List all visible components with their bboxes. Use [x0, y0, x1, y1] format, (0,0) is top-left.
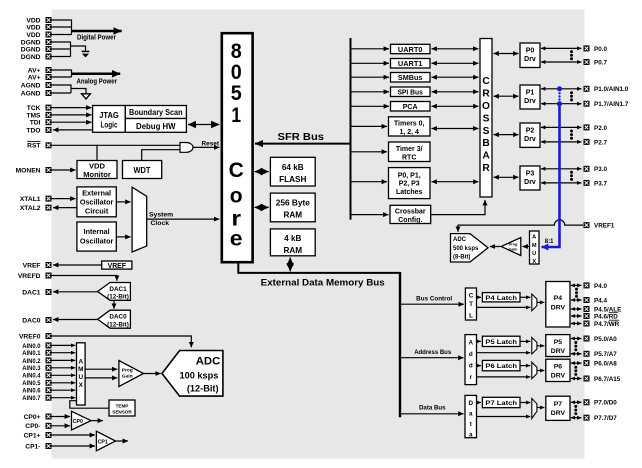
wire bus to timer3: [351, 151, 388, 153]
mux P6: [532, 362, 537, 379]
ADC0 12-bit block: [162, 351, 223, 397]
pin VDD 2: [26, 24, 51, 31]
pin DGND 3: [21, 54, 52, 61]
pin TDI: [30, 119, 52, 126]
P1 drv box: [520, 85, 540, 109]
wire XTAL1: [52, 198, 76, 200]
wire gate to core: [193, 146, 219, 148]
svg-text:Boundary Scan: Boundary Scan: [129, 108, 183, 117]
wire crossbar to P1 drv: [494, 95, 519, 97]
wire P3.0: [541, 168, 582, 170]
svg-text:o: o: [230, 183, 243, 207]
svg-text:64 kB: 64 kB: [282, 163, 304, 172]
svg-text:T: T: [469, 301, 473, 308]
svg-text:C: C: [469, 292, 474, 299]
mux clock select: [132, 187, 147, 252]
pin TDO: [26, 127, 51, 134]
wire addr to P6 latch: [477, 365, 481, 367]
P2 drv box: [520, 123, 540, 147]
wire P4.5: [571, 308, 582, 310]
internal oscillator box: [77, 222, 116, 251]
wire AV+ bus: [52, 70, 72, 77]
svg-text:Drv: Drv: [524, 98, 536, 105]
dots P4: [575, 288, 578, 298]
pin DAC1: [22, 289, 51, 296]
wire addr P5 bypass: [477, 352, 531, 354]
Addr box: [465, 335, 477, 385]
boundary scan box: [125, 106, 186, 119]
svg-text:A: A: [532, 235, 536, 241]
pin DAC0: [22, 317, 51, 324]
pin CP1-: [25, 443, 51, 450]
svg-text:TCK: TCK: [27, 105, 41, 112]
svg-text:DGND: DGND: [21, 54, 41, 61]
svg-text:P3: P3: [526, 171, 535, 178]
svg-text:P3.7: P3.7: [594, 180, 607, 187]
wire bus to UART1: [351, 62, 390, 64]
svg-text:P0: P0: [526, 48, 535, 55]
temp sensor box: [109, 400, 135, 416]
ground digital: [82, 51, 90, 57]
dots P7: [574, 405, 577, 415]
svg-text:P4: P4: [554, 295, 563, 302]
pin VREF1: [584, 222, 615, 229]
svg-text:CP0-: CP0-: [25, 423, 40, 430]
svg-text:FLASH: FLASH: [279, 175, 306, 184]
svg-text:4 kB: 4 kB: [284, 234, 301, 243]
svg-text:DAC1: DAC1: [109, 286, 127, 293]
pin P7.0/D0: [584, 399, 618, 406]
svg-text:VDD: VDD: [26, 17, 40, 24]
svg-text:Timers 0,: Timers 0,: [394, 121, 425, 128]
pin AV+ 1: [28, 67, 52, 74]
svg-text:8:1: 8:1: [545, 239, 554, 245]
mux P5: [532, 338, 537, 355]
wire DAC0: [53, 319, 98, 321]
CTL box: [465, 288, 476, 320]
pin TCK: [27, 105, 52, 112]
svg-text:P0, P1,: P0, P1,: [398, 172, 421, 179]
comparator CP0: [72, 411, 92, 430]
svg-text:VREFD: VREFD: [18, 273, 41, 280]
svg-text:A: A: [482, 151, 490, 162]
wire MONEN: [52, 169, 76, 171]
wire UART0 to crossbar: [432, 48, 479, 50]
pin RST: [27, 141, 51, 149]
pin P1.0/AIN1.0: [584, 86, 629, 93]
wire data to P7 latch: [477, 402, 481, 404]
wire external memory bus vertical: [399, 272, 401, 417]
wire DGND bus: [52, 42, 71, 57]
ADC1 8-bit block: [451, 234, 489, 262]
wire core to flash: [255, 171, 269, 173]
pin AIN0.4: [22, 372, 51, 379]
svg-text:256 Byte: 256 Byte: [276, 199, 310, 208]
svg-text:Logic: Logic: [101, 120, 118, 130]
wire TMS: [52, 114, 92, 116]
wire P1.0: [541, 88, 582, 90]
svg-text:AV+: AV+: [28, 67, 41, 74]
svg-text:JTAG: JTAG: [99, 110, 119, 120]
pin DGND 2: [21, 46, 52, 53]
wire CTL to P4 latch: [477, 296, 481, 298]
svg-text:Bus Control: Bus Control: [416, 296, 452, 303]
svg-text:XTAL1: XTAL1: [20, 196, 41, 203]
svg-text:VDD: VDD: [26, 32, 40, 39]
wire to digital ground: [71, 46, 86, 52]
WDT box: [123, 161, 162, 179]
svg-text:P3.0: P3.0: [594, 166, 607, 173]
svg-text:O: O: [482, 101, 490, 112]
wire core to ram256: [255, 206, 269, 208]
wire address bus: [400, 357, 464, 359]
svg-text:(12-Bit): (12-Bit): [187, 384, 219, 394]
UART1 box: [391, 59, 431, 69]
wire WDT to gate: [142, 150, 180, 161]
ground analog: [82, 94, 91, 99]
wire system clock: [147, 218, 220, 220]
pin P2.0: [584, 124, 608, 131]
wire P2.7: [541, 141, 582, 143]
wire prog gain 2 to ADC1: [490, 246, 501, 248]
P6 latch box: [482, 360, 520, 370]
svg-text:Gain: Gain: [122, 374, 133, 380]
svg-text:P2.7: P2.7: [594, 139, 607, 146]
pin TMS: [26, 112, 51, 119]
P6 DRV box: [546, 359, 570, 381]
svg-text:AIN0.7: AIN0.7: [22, 395, 41, 402]
svg-text:DAC0: DAC0: [22, 317, 40, 324]
pin AV+ 2: [28, 74, 52, 81]
svg-text:P4.4: P4.4: [594, 297, 607, 304]
svg-text:Debug HW: Debug HW: [136, 122, 176, 131]
wire SFR bus horizontal: [255, 143, 351, 145]
wire VREF: [53, 264, 102, 266]
svg-text:100 ksps: 100 ksps: [179, 370, 218, 380]
svg-text:e: e: [230, 227, 243, 251]
svg-text:RAM: RAM: [283, 246, 302, 255]
wire P4.6: [571, 315, 582, 317]
svg-text:DRV: DRV: [551, 305, 566, 312]
svg-text:Drv: Drv: [524, 56, 536, 63]
pin XTAL1: [20, 196, 52, 203]
wire bus to latches: [351, 181, 388, 183]
gate reset: [180, 143, 193, 153]
wire addr to P5 latch: [477, 340, 481, 342]
wire CP0-: [52, 425, 71, 427]
wire bus to PCA: [351, 105, 390, 107]
wire P7.0: [571, 401, 582, 403]
VREF box: [102, 261, 132, 270]
P5 latch box: [482, 336, 520, 346]
P5 DRV box: [546, 335, 570, 357]
svg-text:TDO: TDO: [26, 127, 40, 134]
wire config to crossbar: [431, 200, 485, 215]
svg-text:DAC0: DAC0: [109, 314, 127, 321]
pin P3.0: [584, 166, 608, 173]
pin AIN0.7: [22, 395, 51, 402]
svg-text:External: External: [82, 188, 111, 197]
svg-text:AGND: AGND: [21, 90, 41, 97]
pin AIN0.3: [22, 365, 51, 372]
dots P3: [570, 171, 573, 181]
wire crossbar to P2 drv: [494, 134, 519, 136]
svg-text:P5.0/A0: P5.0/A0: [594, 336, 617, 343]
pin P5.7/A7: [584, 351, 618, 358]
pin AIN0.6: [22, 387, 51, 394]
pin P4.7/WR: [584, 320, 620, 328]
svg-text:P5.7/A7: P5.7/A7: [594, 351, 617, 358]
svg-text:d: d: [469, 363, 473, 370]
wire RST to VDD monitor: [96, 145, 98, 160]
AMUX analog mux box: [77, 343, 86, 405]
pin AGND 2: [21, 90, 52, 97]
P0 drv box: [520, 43, 540, 68]
svg-text:CP0: CP0: [73, 419, 83, 425]
wire addr P6 bypass: [477, 376, 531, 378]
svg-text:VREF0: VREF0: [19, 333, 41, 340]
pin VREFD: [18, 273, 52, 280]
wire VREF0 to ADC: [52, 336, 192, 347]
svg-text:RST: RST: [27, 143, 41, 150]
wire P4.4: [571, 299, 582, 301]
svg-text:P4.7/WR: P4.7/WR: [594, 321, 620, 328]
ram256 box: [270, 193, 315, 222]
label System Clock: [149, 212, 173, 227]
wire P6 latch to mux: [520, 365, 530, 367]
pin P4.5/ALE: [584, 306, 622, 313]
wire crossbar to P3 drv: [494, 176, 519, 178]
svg-text:P0.7: P0.7: [594, 59, 607, 66]
wire P4.0: [571, 284, 582, 286]
wire P1.7: [541, 103, 582, 105]
pin AIN0.1: [22, 350, 51, 357]
wire to analog ground: [71, 89, 86, 94]
wire P2.0: [541, 126, 582, 128]
wire latches to crossbar: [432, 181, 479, 183]
svg-text:DRV: DRV: [551, 348, 566, 355]
wire RST: [52, 144, 181, 146]
wire VREF1 to ADC1 with hop: [458, 220, 583, 232]
svg-text:Clock: Clock: [151, 220, 170, 227]
svg-text:ADC: ADC: [453, 237, 467, 243]
svg-text:AIN0.5: AIN0.5: [22, 380, 41, 387]
svg-text:C: C: [482, 76, 490, 87]
pin AIN0.2: [22, 357, 51, 364]
wire CP1 out: [116, 440, 129, 442]
mux P4: [532, 294, 537, 311]
pin P6.7/A15: [584, 376, 621, 383]
wire P4.7: [571, 323, 582, 325]
dots P2: [570, 130, 573, 140]
wire bus control: [400, 303, 464, 305]
svg-text:ADC: ADC: [196, 355, 220, 367]
svg-text:AIN0.6: AIN0.6: [22, 388, 41, 395]
svg-text:A: A: [469, 340, 474, 347]
svg-text:P1.0/AIN1.0: P1.0/AIN1.0: [594, 86, 629, 93]
svg-text:Gain: Gain: [509, 246, 518, 251]
pin AIN0.0: [22, 342, 51, 349]
svg-text:XTAL2: XTAL2: [20, 205, 41, 212]
P4 latch box: [482, 293, 520, 302]
svg-text:d: d: [469, 351, 473, 358]
wires AMUX to prog gain: [85, 369, 117, 378]
wire P7.7: [571, 417, 582, 419]
wire DAC1 to DAC0: [113, 300, 115, 309]
svg-text:X: X: [79, 382, 84, 389]
wire PCA to crossbar: [432, 105, 479, 107]
wire SPI to crossbar: [432, 91, 479, 93]
svg-text:P6.7/A15: P6.7/A15: [594, 376, 621, 383]
wire int osc to mux: [116, 236, 130, 238]
wire CP0+: [52, 416, 71, 418]
pin P5.0/A0: [584, 336, 618, 343]
wire external memory bus horizontal: [237, 272, 400, 274]
pin CP0-: [25, 423, 51, 430]
svg-text:VREF: VREF: [23, 262, 41, 269]
pin CP0+: [24, 414, 52, 421]
wire AGND bus: [52, 85, 72, 93]
svg-text:AIN0.1: AIN0.1: [22, 350, 41, 357]
svg-text:P2, P3: P2, P3: [399, 181, 420, 188]
svg-text:Reset: Reset: [202, 141, 220, 148]
svg-text:UART0: UART0: [398, 45, 423, 54]
svg-text:Address Bus: Address Bus: [414, 349, 452, 356]
svg-text:Internal: Internal: [84, 227, 110, 236]
wire bus to crossbar config: [351, 214, 389, 216]
wire CP1+: [52, 434, 96, 436]
svg-text:P0.0: P0.0: [594, 46, 607, 53]
svg-text:M: M: [78, 366, 83, 373]
pin VDD 1: [26, 17, 51, 24]
dots P1: [570, 91, 573, 101]
wire mux to P7 drv: [537, 407, 544, 409]
pin CP1+: [24, 432, 52, 439]
svg-text:1: 1: [231, 103, 241, 127]
PCA box: [391, 102, 431, 112]
wire P6.0: [571, 362, 582, 364]
svg-text:WDT: WDT: [134, 165, 152, 175]
dots P5: [574, 341, 577, 351]
svg-text:Latches: Latches: [396, 189, 423, 196]
svg-text:P6.0/A8: P6.0/A8: [594, 361, 617, 368]
svg-text:AV+: AV+: [28, 74, 41, 81]
svg-text:CP0+: CP0+: [24, 414, 41, 421]
wire bus to timers: [351, 125, 388, 127]
svg-text:SPI Bus: SPI Bus: [397, 88, 423, 97]
svg-text:U: U: [78, 374, 83, 381]
svg-text:SMBus: SMBus: [398, 73, 423, 82]
svg-text:S: S: [483, 113, 490, 124]
svg-text:Drv: Drv: [524, 136, 536, 143]
svg-text:P2: P2: [526, 128, 535, 135]
svg-text:P6 Latch: P6 Latch: [485, 363, 517, 370]
wire bus to UART0: [351, 48, 390, 50]
wire VDD bus: [52, 20, 72, 35]
wire bus to SMBus: [351, 76, 390, 78]
svg-text:Config.: Config.: [398, 217, 422, 224]
wire P4 latch to mux: [520, 296, 530, 298]
svg-text:R: R: [482, 163, 490, 174]
svg-text:A: A: [78, 359, 83, 366]
svg-text:VREF1: VREF1: [594, 223, 615, 230]
svg-text:UART1: UART1: [398, 59, 423, 68]
svg-text:Prog: Prog: [122, 368, 133, 374]
wire UART1 to crossbar: [432, 62, 479, 64]
svg-text:Timer 3/: Timer 3/: [396, 146, 423, 153]
svg-text:U: U: [532, 251, 536, 257]
UART0 box: [391, 44, 431, 54]
8051 core block: [222, 33, 253, 262]
svg-text:Monitor: Monitor: [83, 170, 111, 179]
svg-text:P4 Latch: P4 Latch: [485, 295, 517, 302]
svg-text:(12-Bit): (12-Bit): [107, 294, 129, 301]
wire ext osc to mux: [116, 201, 130, 203]
wire P5.0: [571, 338, 582, 340]
svg-text:a: a: [469, 431, 473, 438]
svg-text:P1.7/AIN1.7: P1.7/AIN1.7: [594, 101, 629, 108]
svg-text:P6: P6: [554, 364, 563, 371]
wire crossbar to P0 drv: [494, 53, 519, 55]
pin P4.6/RD: [584, 313, 619, 321]
P7 DRV box: [546, 396, 570, 420]
svg-text:Data Bus: Data Bus: [419, 404, 446, 411]
svg-text:P2.0: P2.0: [594, 125, 607, 132]
svg-text:P4.6/RD: P4.6/RD: [594, 313, 618, 320]
DAC1 block: [98, 283, 131, 301]
svg-text:1, 2, 4: 1, 2, 4: [399, 129, 419, 136]
svg-text:TDI: TDI: [30, 120, 41, 127]
pin VREF: [23, 262, 52, 269]
wire mux to P4 drv: [537, 301, 544, 303]
wire data bus: [400, 413, 464, 415]
svg-text:S: S: [483, 126, 490, 137]
dots P6: [574, 366, 577, 376]
svg-text:CP1-: CP1-: [25, 443, 40, 450]
wire analog power arrow: [72, 73, 121, 76]
wire DAC1: [53, 291, 98, 293]
svg-text:DGND: DGND: [21, 39, 41, 46]
JTAG logic box: [93, 106, 126, 133]
wire CTL bypass: [477, 306, 531, 308]
svg-text:AIN0.0: AIN0.0: [22, 343, 41, 350]
VDD monitor box: [77, 161, 117, 180]
wire VREFD to DAC1: [52, 276, 117, 281]
pin MONEN: [16, 167, 52, 174]
svg-text:Analog Power: Analog Power: [77, 79, 118, 86]
svg-text:X: X: [532, 259, 536, 265]
wire SFR bus vertical: [350, 38, 352, 220]
external oscillator box: [77, 187, 116, 217]
svg-text:TEMP: TEMP: [116, 403, 129, 408]
svg-text:P5: P5: [554, 339, 563, 346]
pin AIN0.5: [22, 380, 51, 387]
SMBus box: [391, 73, 431, 83]
svg-text:TMS: TMS: [26, 112, 41, 119]
wire prog gain to ADC0: [143, 373, 160, 375]
svg-text:R: R: [482, 89, 490, 100]
svg-text:MONEN: MONEN: [16, 167, 41, 174]
AMUX 8to1 box: [530, 231, 540, 265]
wire P6.7: [571, 378, 582, 380]
svg-text:AIN0.3: AIN0.3: [22, 365, 41, 372]
wire P5.7: [571, 353, 582, 355]
svg-text:SENSOR: SENSOR: [112, 410, 132, 415]
ram4k box: [270, 229, 315, 256]
svg-text:Oscillator: Oscillator: [80, 198, 114, 207]
crossbar box: [480, 39, 492, 198]
pin P7.7/D7: [584, 415, 618, 422]
